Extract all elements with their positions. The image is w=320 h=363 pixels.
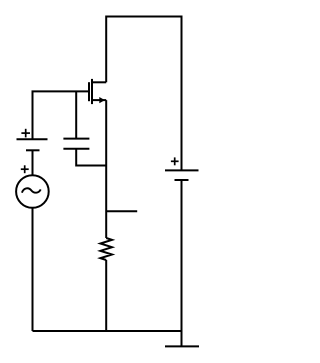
transistor Q1 (n-MOSFET) bbox=[89, 79, 106, 104]
battery V2 bbox=[165, 157, 199, 180]
wire source net vertical: Q1 source down to resistor R1 bbox=[105, 100, 107, 238]
resistor R1 bbox=[100, 238, 112, 260]
wire gate net: from Q1 gate left then down to V1 positive plate bbox=[33, 91, 89, 139]
wire output stub at source node bbox=[106, 210, 137, 212]
wire drain rail: Q1 drain up, across top, down to V2 positive plate bbox=[106, 17, 181, 171]
battery V1 bbox=[17, 129, 48, 151]
wire C1 bottom plate down and right to source net bbox=[76, 149, 106, 166]
AC source VS bbox=[16, 165, 49, 207]
wire V2 negative plate down through bottom rail to ground bbox=[181, 180, 183, 346]
wire V1 negative plate to AC source top bbox=[32, 150, 34, 176]
capacitor C1 bbox=[63, 139, 89, 149]
ground bbox=[165, 345, 199, 347]
wire capacitor branch: junction on gate net down to C1 top plate bbox=[75, 91, 77, 138]
wire bottom rail bbox=[33, 330, 182, 332]
wire AC source bottom down to bottom rail bbox=[32, 208, 34, 331]
wire R1 bottom to bottom rail bbox=[105, 260, 107, 331]
